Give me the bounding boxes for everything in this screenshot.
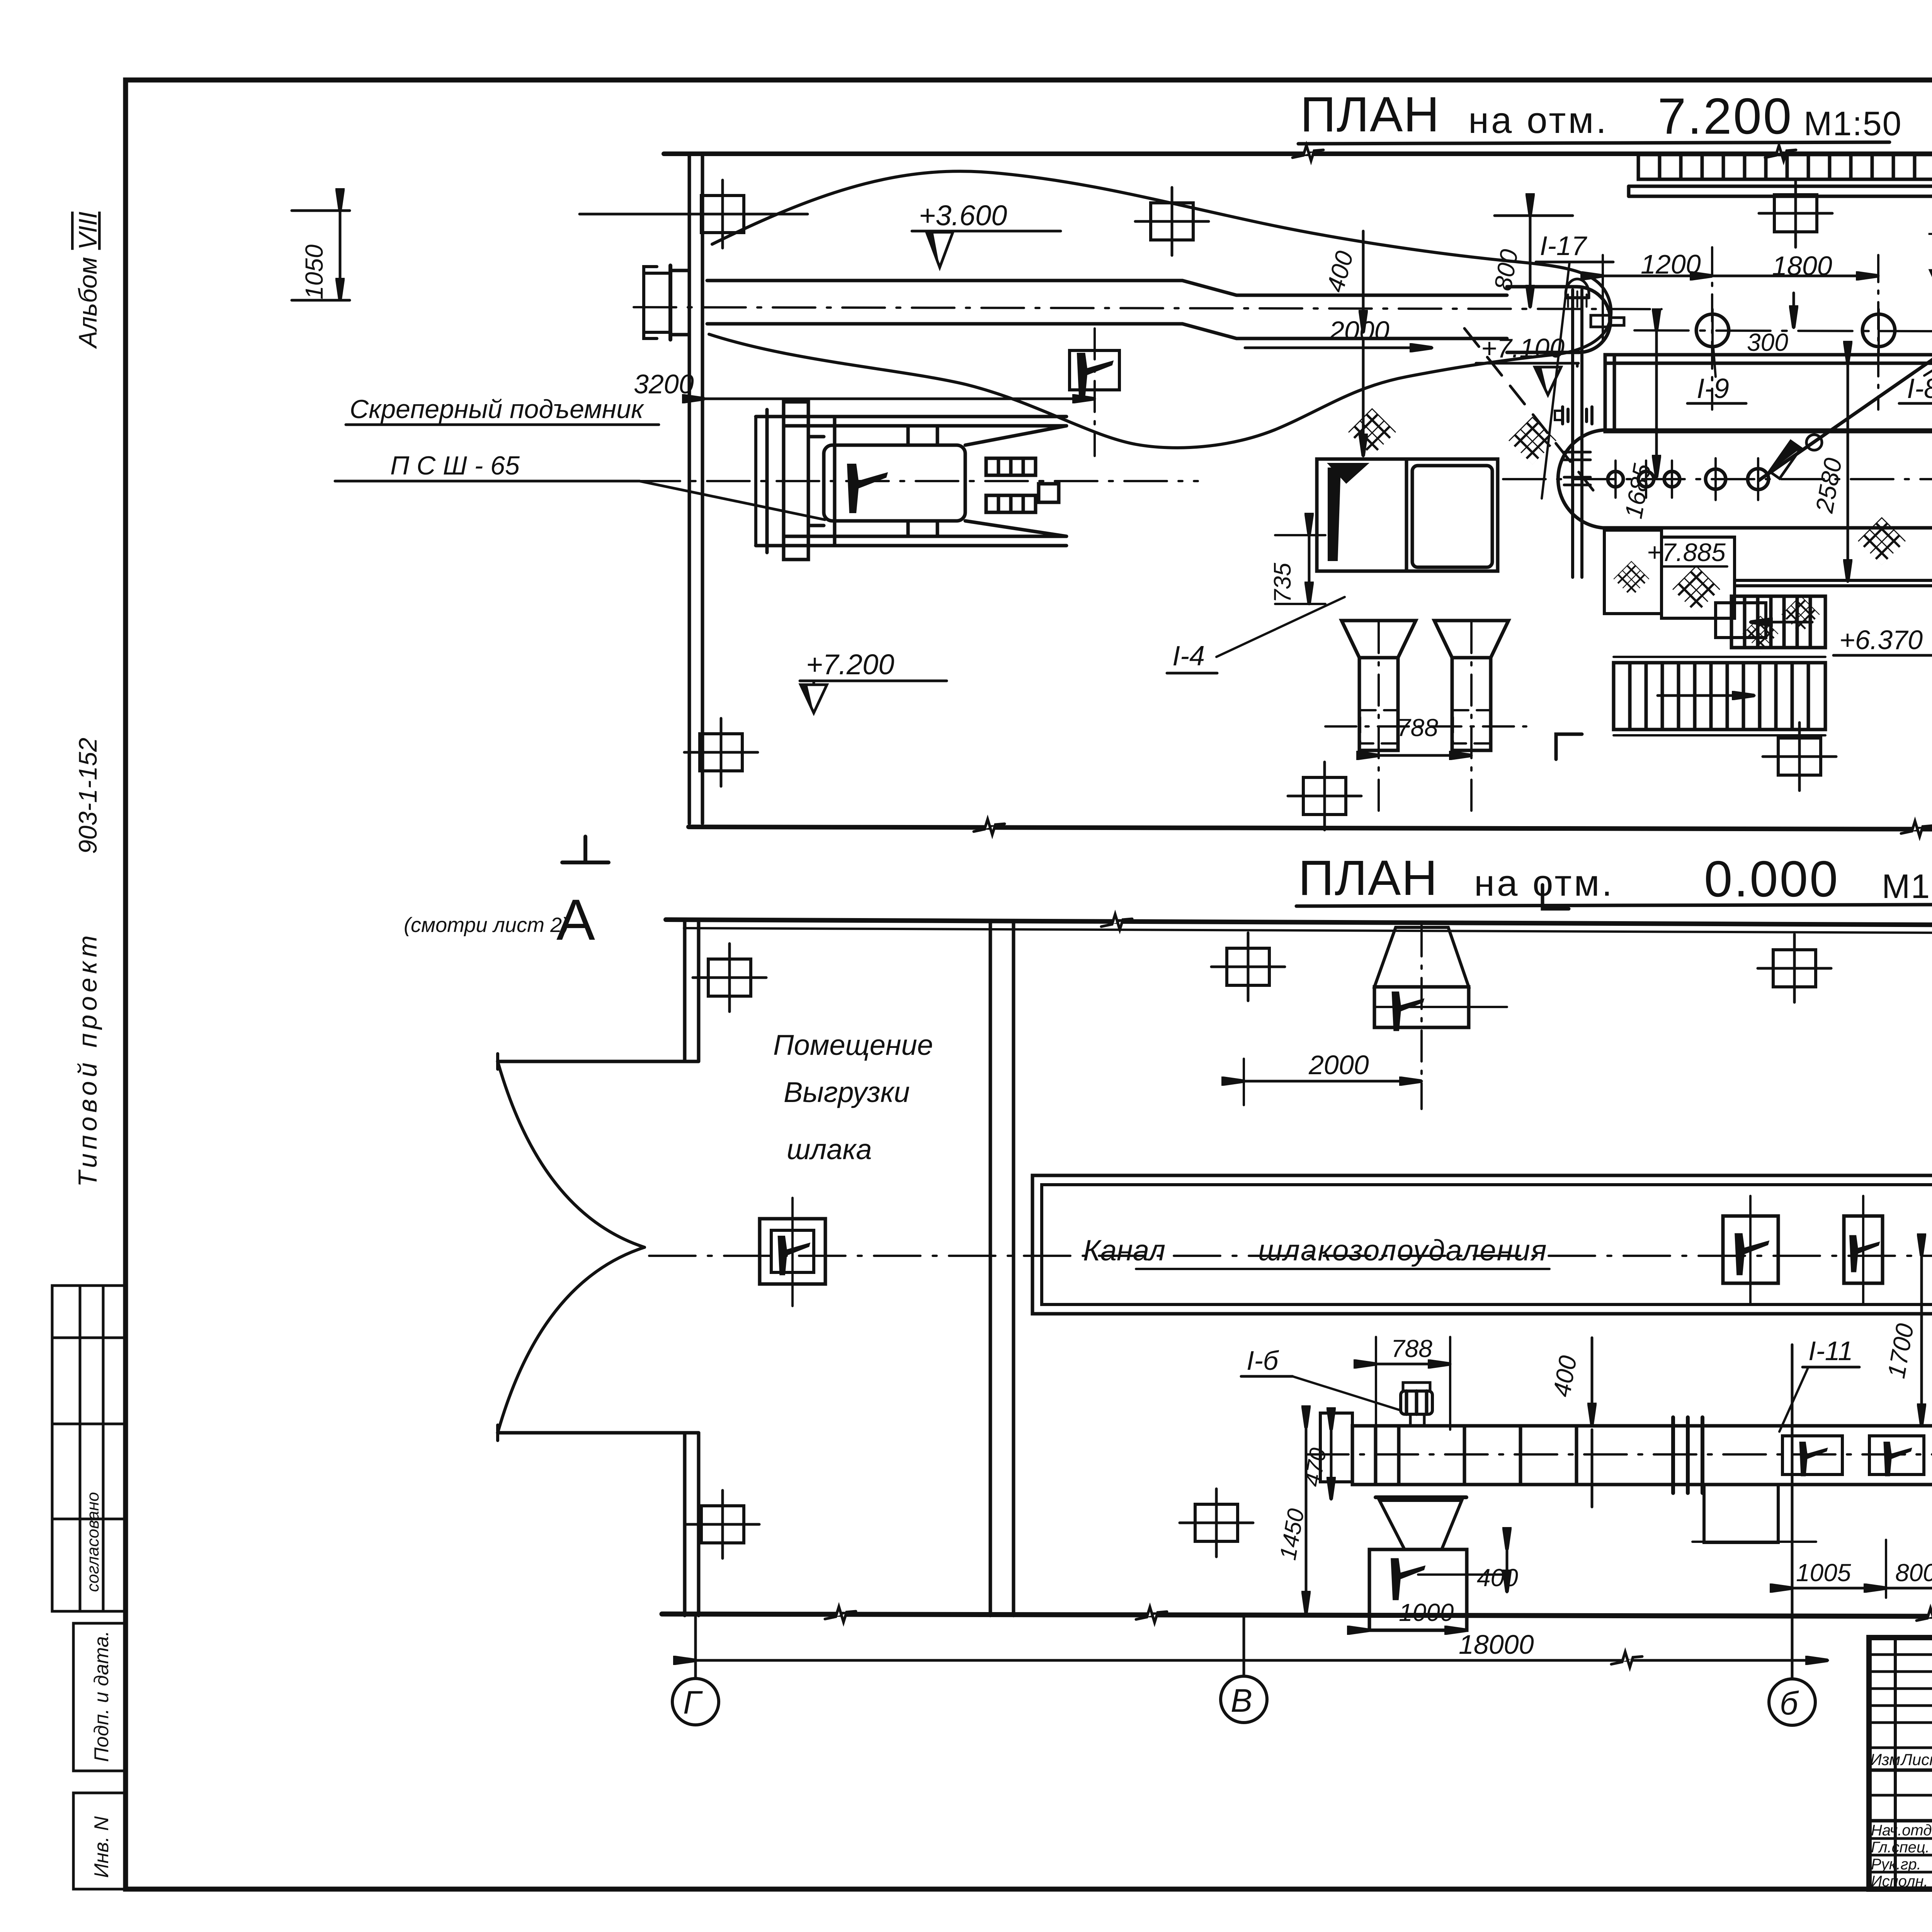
svg-text:400: 400 xyxy=(1477,1564,1518,1592)
label I-6 xyxy=(1241,1345,1401,1410)
svg-text:Изм: Изм xyxy=(1870,1750,1900,1769)
svg-text:I-17: I-17 xyxy=(1540,231,1588,261)
left margin annex xyxy=(52,212,126,1889)
hatch patches xyxy=(1348,408,1396,456)
svg-text:согласовано: согласовано xyxy=(83,1492,102,1592)
svg-text:Инв. N: Инв. N xyxy=(90,1816,113,1878)
svg-text:А: А xyxy=(556,887,595,952)
conveyor channel xyxy=(634,265,1662,352)
svg-text:+7.200: +7.200 xyxy=(806,648,894,680)
conveyor I-11 xyxy=(1306,1413,1932,1543)
elevation +3.600 left xyxy=(912,199,1061,267)
dim 400 top xyxy=(1321,231,1363,456)
svg-text:788: 788 xyxy=(1391,1335,1432,1362)
svg-text:В: В xyxy=(1231,1682,1252,1719)
door arcs xyxy=(498,1061,645,1247)
svg-text:400: 400 xyxy=(1321,248,1359,295)
platform edge below drum xyxy=(1735,579,1932,582)
coal pile cloud xyxy=(709,171,1611,448)
dims 1200 1800 xyxy=(1603,247,1878,410)
dim 18000 xyxy=(696,1629,1828,1667)
dims 470 1450 xyxy=(1275,1428,1331,1613)
column bottom-left A6 xyxy=(684,718,758,786)
column mid-top xyxy=(1135,187,1209,255)
bottom wall xyxy=(689,827,1932,830)
elevation +7.100 xyxy=(1476,333,1578,395)
lever diagonal xyxy=(1759,333,1932,480)
svg-text:903-1-152: 903-1-152 xyxy=(73,738,102,854)
dim 3200 xyxy=(634,369,1095,399)
svg-text:Лист: Лист xyxy=(1900,1750,1932,1769)
svg-text:Канал: Канал xyxy=(1083,1234,1165,1267)
svg-text:2580: 2580 xyxy=(1810,456,1847,515)
boiler drum xyxy=(1558,430,1932,528)
svg-text:1700: 1700 xyxy=(1882,1321,1919,1380)
boiler casing xyxy=(1605,355,1932,432)
room label xyxy=(773,1029,933,1165)
svg-text:300: 300 xyxy=(1747,328,1788,356)
svg-text:1450: 1450 xyxy=(1275,1507,1309,1562)
dim 1005 xyxy=(1792,1540,1886,1598)
svg-text:Помещение: Помещение xyxy=(773,1029,933,1061)
svg-text:1200: 1200 xyxy=(1641,249,1701,279)
svg-text:Гл.спец.: Гл.спец. xyxy=(1871,1839,1930,1856)
svg-text:М1:50: М1:50 xyxy=(1882,867,1932,905)
bottom wall xyxy=(662,1614,1932,1617)
svg-text:Исполн.: Исполн. xyxy=(1871,1873,1928,1890)
axis G xyxy=(672,1616,719,1725)
smotri list label xyxy=(404,887,595,952)
elevation +3.600 boiler xyxy=(1927,218,1932,294)
svg-text:1000: 1000 xyxy=(1399,1599,1454,1626)
column under band xyxy=(1759,179,1832,247)
dashed diagonal chute line xyxy=(1464,328,1600,498)
left wall xyxy=(688,154,691,823)
canal wedge columns xyxy=(1723,1196,1778,1304)
elevation +7.200 xyxy=(800,648,947,713)
svg-text:П С Ш - 65: П С Ш - 65 xyxy=(390,451,520,480)
stairs upper xyxy=(1731,596,1825,648)
section mark above A xyxy=(562,837,609,862)
funnel under motor xyxy=(1369,1497,1507,1630)
interior wall xyxy=(989,922,992,1616)
dim 400 chute xyxy=(1477,1549,1518,1592)
svg-text:I-б: I-б xyxy=(1247,1345,1279,1376)
small platform below xyxy=(1716,603,1766,638)
svg-text:1685: 1685 xyxy=(1619,461,1656,520)
column A7 top-left xyxy=(580,180,808,248)
detail corner brackets xyxy=(1556,734,1582,759)
dim 400 conveyor xyxy=(1548,1338,1592,1507)
svg-text:1005: 1005 xyxy=(1796,1559,1851,1587)
svg-text:I-11: I-11 xyxy=(1808,1336,1853,1366)
small column near bottom wall xyxy=(1288,762,1361,830)
svg-text:3200: 3200 xyxy=(634,369,694,399)
svg-text:1800: 1800 xyxy=(1772,251,1832,281)
canal centerline xyxy=(649,1255,1932,1257)
svg-text:1050: 1050 xyxy=(300,244,328,299)
dim 735 xyxy=(1269,535,1325,604)
dim 1000 xyxy=(1369,1599,1467,1630)
dim 788 bottom xyxy=(1376,1335,1450,1430)
svg-text:2000: 2000 xyxy=(1329,316,1389,346)
label I-17 xyxy=(1536,231,1613,498)
dim 1050 xyxy=(292,211,350,300)
feed pipe and valves xyxy=(1555,279,1624,577)
svg-text:Г: Г xyxy=(683,1684,703,1721)
svg-text:+6.370: +6.370 xyxy=(1839,625,1923,655)
svg-text:I-8: I-8 xyxy=(1907,373,1932,404)
hatched column w/ axis (3200 dim end) xyxy=(1070,328,1119,456)
inv N box xyxy=(73,1793,126,1889)
dim 2000 top xyxy=(1245,316,1432,348)
svg-text:+7.885: +7.885 xyxy=(1647,538,1726,566)
svg-text:Подп. и дата.: Подп. и дата. xyxy=(90,1631,113,1762)
svg-text:800: 800 xyxy=(1895,1559,1932,1587)
left sub table rows xyxy=(1869,1653,1932,1656)
axis B xyxy=(1769,1345,1815,1725)
roof plank band xyxy=(1629,155,1932,196)
economizer block xyxy=(1317,459,1498,571)
svg-text:Рук.гр.: Рук.гр. xyxy=(1871,1856,1921,1873)
platform rect +7.885 xyxy=(1604,530,1735,618)
column mid bottom xyxy=(1763,723,1836,791)
scraper label xyxy=(350,395,645,480)
dim 800 xyxy=(1886,1540,1932,1598)
left wall lower xyxy=(683,1433,687,1616)
svg-text:шлакозолоудаления: шлакозолоудаления xyxy=(1258,1234,1547,1267)
columns top wall xyxy=(693,944,766,1012)
label I-8 xyxy=(1899,350,1932,404)
door jambs xyxy=(498,1060,699,1063)
canal xyxy=(1032,1175,1932,1314)
svg-text:шлака: шлака xyxy=(787,1133,872,1165)
dim 2000 bottom plan xyxy=(1244,1050,1422,1105)
label I-11 xyxy=(1779,1336,1859,1432)
svg-text:(смотри лист 2): (смотри лист 2) xyxy=(404,913,569,937)
dim 1700 xyxy=(1882,1256,1922,1426)
top wall xyxy=(664,151,1932,156)
dim 2580 xyxy=(1810,363,1848,582)
svg-text:7.200: 7.200 xyxy=(1658,88,1793,145)
svg-text:400: 400 xyxy=(1548,1353,1582,1399)
svg-text:18000: 18000 xyxy=(1459,1629,1534,1660)
wedge column in slag room xyxy=(760,1198,825,1306)
dim 788 top plan xyxy=(1379,714,1471,755)
svg-text:Альбом VIII: Альбом VIII xyxy=(73,212,102,349)
svg-text:Типовой проект: Типовой проект xyxy=(73,932,102,1187)
wall break marks xyxy=(1293,145,1323,161)
svg-text:+3.600: +3.600 xyxy=(919,199,1007,231)
svg-text:0.000: 0.000 xyxy=(1704,850,1839,907)
label I-9 xyxy=(1687,348,1746,404)
svg-text:на отм.: на отм. xyxy=(1468,100,1609,141)
svg-text:I-4: I-4 xyxy=(1172,641,1205,672)
elevation +6.370 xyxy=(1833,625,1932,708)
svg-text:ПЛАН: ПЛАН xyxy=(1298,850,1438,906)
top wall xyxy=(666,920,1932,927)
label I-4 xyxy=(1167,597,1345,673)
podpis i data box xyxy=(73,1623,126,1771)
stairs big xyxy=(1614,657,1825,735)
scraper hoist machine PSSh-65 xyxy=(638,402,1198,560)
svg-text:+3.600: +3.600 xyxy=(1927,218,1932,250)
svg-text:788: 788 xyxy=(1397,714,1438,742)
svg-text:2000: 2000 xyxy=(1308,1050,1369,1080)
svg-text:Скреперный подъемник: Скреперный подъемник xyxy=(350,395,645,424)
top funnel xyxy=(1374,925,1507,1109)
svg-text:I-9: I-9 xyxy=(1697,373,1729,404)
motor I-6 xyxy=(1401,1383,1432,1426)
svg-text:+7.100: +7.100 xyxy=(1481,333,1565,363)
axis V xyxy=(1221,1616,1267,1723)
svg-text:735: 735 xyxy=(1269,563,1296,603)
svg-text:ПЛАН: ПЛАН xyxy=(1300,87,1440,142)
svg-text:Нач.отд: Нач.отд xyxy=(1871,1822,1932,1839)
columns bottom wall xyxy=(686,1490,759,1558)
svg-text:М1:50: М1:50 xyxy=(1804,104,1902,143)
dim 800 top xyxy=(1489,216,1573,307)
hoppers under economizer xyxy=(1325,621,1530,811)
title PLAN 0.000 xyxy=(1296,850,1932,907)
small stamp table xyxy=(52,1286,126,1611)
title PLAN 7.200 xyxy=(1298,87,1902,145)
left wall upper xyxy=(683,920,687,1061)
dim 1685 xyxy=(1619,331,1656,520)
svg-text:б: б xyxy=(1780,1685,1799,1721)
svg-text:Выгрузки: Выгрузки xyxy=(784,1076,910,1108)
casing circles xyxy=(1696,314,1729,347)
